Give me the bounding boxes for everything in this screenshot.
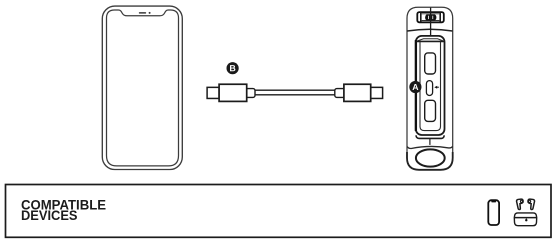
transmitter outer body <box>407 7 453 170</box>
earbuds icon left bud <box>516 199 524 210</box>
transmitter front panel <box>416 36 445 135</box>
transmitter usb-c port pill <box>426 81 432 96</box>
cable left strain relief <box>244 89 255 98</box>
transmitter panel bottom edge <box>416 135 444 138</box>
port arrow marker <box>434 86 439 89</box>
transmitter lower seam <box>407 139 452 149</box>
cable left connector body <box>219 84 247 101</box>
transmitter button 2 <box>425 100 436 121</box>
earbuds icon case <box>514 213 536 226</box>
usb plug on transmitter top <box>417 12 444 22</box>
transmitter bottom rim <box>407 152 453 170</box>
transmitter cap seam line <box>407 29 452 31</box>
transmitter hanging hole <box>416 149 445 166</box>
cable right connector tip <box>371 87 383 98</box>
cable right strain relief <box>335 89 346 98</box>
badge A <box>409 81 421 93</box>
phone icon <box>488 200 499 225</box>
transmitter panel top face <box>416 39 444 42</box>
badge B <box>227 62 239 74</box>
cable cord <box>250 90 340 95</box>
cable right connector body <box>344 84 371 101</box>
label COMPATIBLE DEVICES <box>21 198 106 225</box>
compatible devices bar frame <box>6 185 552 238</box>
smartphone body <box>102 6 182 169</box>
cable left connector tip <box>207 87 219 98</box>
smartphone camera dot <box>149 12 151 14</box>
svg-text:DEVICES: DEVICES <box>21 208 78 224</box>
earbuds icon right bud <box>527 199 535 210</box>
transmitter panel inner frame <box>420 42 441 131</box>
smartphone speaker slot <box>139 12 146 14</box>
transmitter center seam <box>430 8 432 36</box>
smartphone screen with notch <box>107 10 179 166</box>
transmitter button 1 <box>425 53 436 74</box>
